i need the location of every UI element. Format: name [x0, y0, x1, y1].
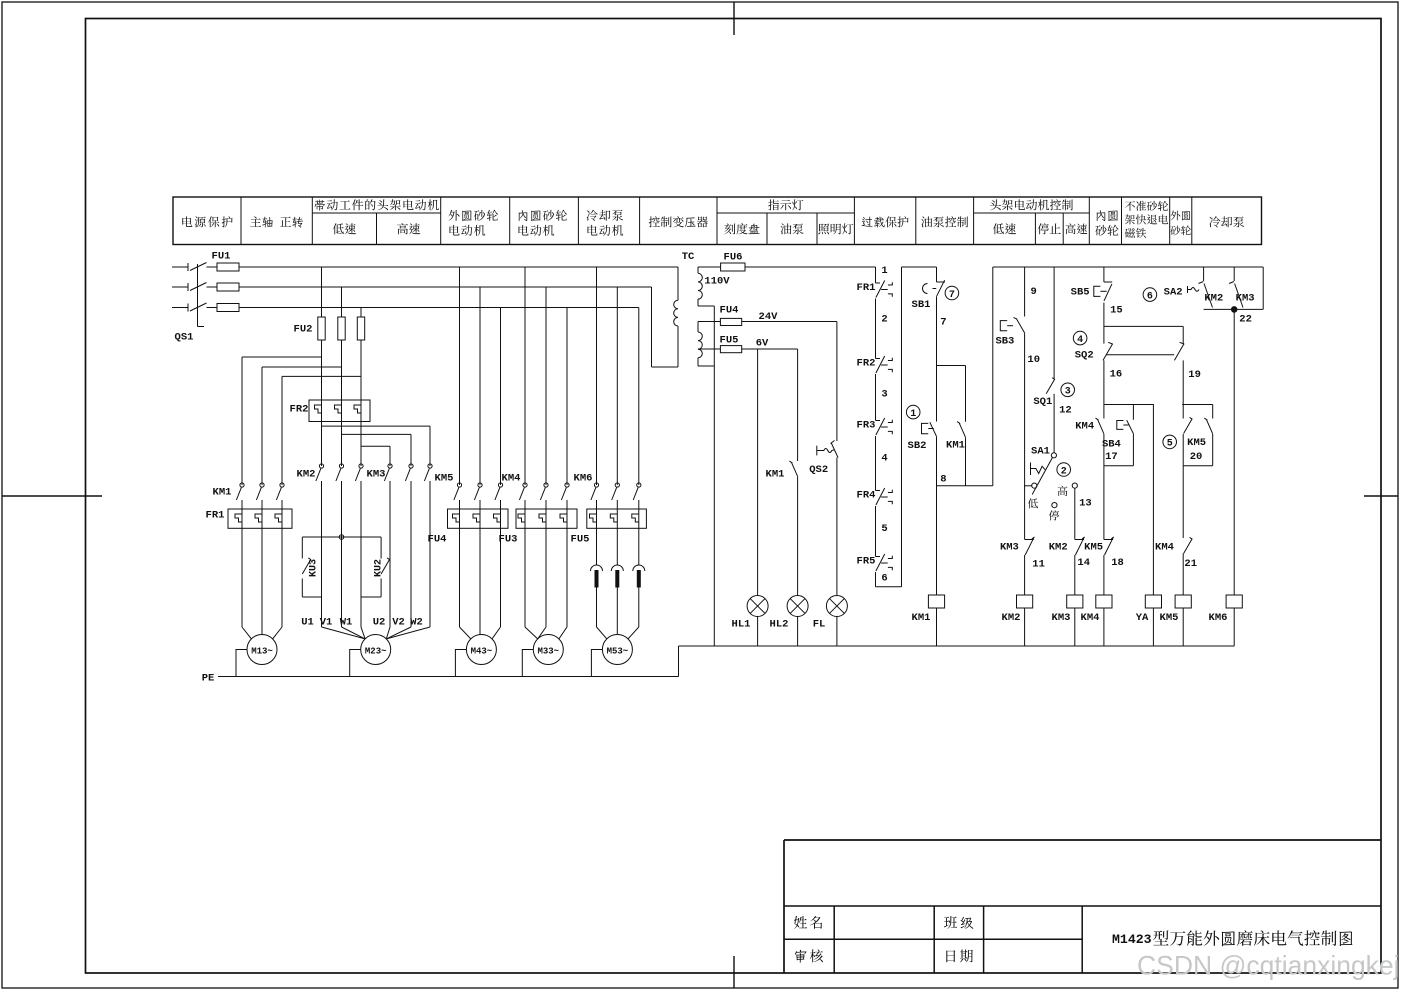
svg-text:SB3: SB3 [995, 336, 1014, 348]
svg-text:13: 13 [1079, 497, 1092, 509]
svg-text:19: 19 [1188, 369, 1201, 381]
svg-text:20: 20 [1190, 451, 1203, 463]
svg-text:6: 6 [881, 572, 887, 584]
svg-text:HL1: HL1 [732, 619, 751, 631]
svg-text:22: 22 [1239, 314, 1252, 326]
svg-text:16: 16 [1110, 369, 1123, 381]
svg-text:KM5: KM5 [435, 473, 454, 485]
svg-text:QS2: QS2 [809, 464, 828, 476]
svg-text:7: 7 [940, 317, 946, 329]
svg-text:KM3: KM3 [367, 469, 386, 481]
svg-text:KM2: KM2 [1049, 542, 1068, 554]
svg-text:3: 3 [1065, 387, 1071, 398]
svg-text:KM1: KM1 [946, 440, 965, 452]
svg-text:2: 2 [881, 314, 887, 326]
svg-text:2: 2 [1061, 466, 1067, 477]
svg-text:FL: FL [813, 619, 826, 631]
svg-text:FU4: FU4 [720, 305, 739, 317]
svg-text:5: 5 [881, 523, 887, 535]
svg-text:KM3: KM3 [1052, 612, 1071, 624]
svg-text:FR3: FR3 [857, 420, 876, 432]
svg-text:M43~: M43~ [471, 647, 493, 657]
svg-text:FU6: FU6 [724, 252, 743, 264]
svg-text:6: 6 [1147, 291, 1153, 302]
svg-text:KM5: KM5 [1084, 542, 1103, 554]
svg-text:KU2: KU2 [374, 559, 385, 577]
svg-text:TC: TC [682, 251, 695, 263]
svg-text:W2: W2 [410, 617, 423, 629]
svg-text:FU5: FU5 [571, 534, 590, 546]
svg-text:FU2: FU2 [294, 324, 313, 336]
svg-text:FR1: FR1 [206, 510, 225, 522]
svg-text:KM6: KM6 [574, 473, 593, 485]
svg-text:FR5: FR5 [857, 556, 876, 568]
svg-text:SA1: SA1 [1031, 446, 1050, 458]
svg-text:KM4: KM4 [1075, 421, 1094, 433]
svg-text:FR1: FR1 [857, 282, 876, 294]
svg-text:KM6: KM6 [1209, 612, 1228, 624]
svg-text:4: 4 [881, 453, 887, 465]
svg-text:KM2: KM2 [1204, 293, 1223, 305]
svg-text:KM4: KM4 [1081, 612, 1100, 624]
svg-text:KM1: KM1 [213, 487, 232, 499]
svg-text:V2: V2 [392, 617, 405, 629]
svg-text:24V: 24V [759, 311, 779, 323]
svg-text:18: 18 [1111, 557, 1124, 569]
svg-text:YA: YA [1136, 612, 1149, 624]
svg-text:U2: U2 [373, 617, 386, 629]
svg-text:10: 10 [1027, 354, 1040, 366]
svg-text:6V: 6V [756, 338, 769, 350]
svg-text:KM3: KM3 [1000, 542, 1019, 554]
svg-text:4: 4 [1077, 335, 1083, 346]
svg-text:QS1: QS1 [175, 332, 194, 344]
svg-text:SB5: SB5 [1071, 286, 1090, 298]
svg-text:7: 7 [949, 290, 955, 301]
svg-text:FU3: FU3 [499, 534, 518, 546]
svg-text:9: 9 [1031, 286, 1037, 298]
svg-text:SB2: SB2 [908, 440, 927, 452]
svg-text:HL2: HL2 [770, 619, 789, 631]
svg-text:FR2: FR2 [290, 404, 309, 416]
svg-text:KM4: KM4 [502, 473, 521, 485]
svg-text:14: 14 [1077, 557, 1090, 569]
svg-text:8: 8 [940, 474, 946, 486]
svg-text:21: 21 [1184, 558, 1197, 570]
svg-text:KM5: KM5 [1187, 437, 1206, 449]
svg-text:17: 17 [1105, 451, 1118, 463]
svg-text:SQ2: SQ2 [1075, 350, 1094, 362]
svg-text:M1423: M1423 [1112, 932, 1152, 947]
svg-text:FU5: FU5 [720, 335, 739, 347]
svg-text:M53~: M53~ [607, 647, 629, 657]
svg-text:15: 15 [1110, 304, 1123, 316]
svg-text:FU1: FU1 [212, 251, 231, 263]
svg-text:M33~: M33~ [537, 647, 559, 657]
svg-text:SB1: SB1 [912, 299, 931, 311]
svg-text:11: 11 [1032, 558, 1045, 570]
svg-text:PE: PE [202, 673, 215, 685]
svg-text:CSDN @cqtianxingkej: CSDN @cqtianxingkej [1137, 951, 1400, 981]
svg-text:5: 5 [1167, 439, 1173, 450]
svg-text:U1: U1 [301, 617, 314, 629]
svg-text:KM2: KM2 [297, 469, 316, 481]
svg-text:1: 1 [910, 409, 916, 420]
svg-text:KM3: KM3 [1236, 293, 1255, 305]
svg-text:SA2: SA2 [1164, 286, 1183, 298]
svg-text:FR2: FR2 [857, 358, 876, 370]
svg-text:KU3: KU3 [309, 559, 320, 577]
svg-text:FU4: FU4 [428, 534, 447, 546]
svg-text:12: 12 [1059, 405, 1072, 417]
svg-text:KM1: KM1 [766, 469, 785, 481]
svg-text:KM1: KM1 [912, 612, 931, 624]
svg-text:110V: 110V [704, 276, 730, 288]
svg-text:3: 3 [881, 388, 887, 400]
svg-text:KM5: KM5 [1160, 612, 1179, 624]
svg-text:M13~: M13~ [251, 647, 273, 657]
svg-text:SB4: SB4 [1102, 439, 1121, 451]
svg-text:M23~: M23~ [365, 647, 387, 657]
svg-text:FR4: FR4 [857, 490, 876, 502]
svg-text:1: 1 [881, 265, 887, 277]
svg-text:KM4: KM4 [1155, 542, 1174, 554]
svg-text:SQ1: SQ1 [1033, 396, 1052, 408]
svg-text:KM2: KM2 [1002, 612, 1021, 624]
